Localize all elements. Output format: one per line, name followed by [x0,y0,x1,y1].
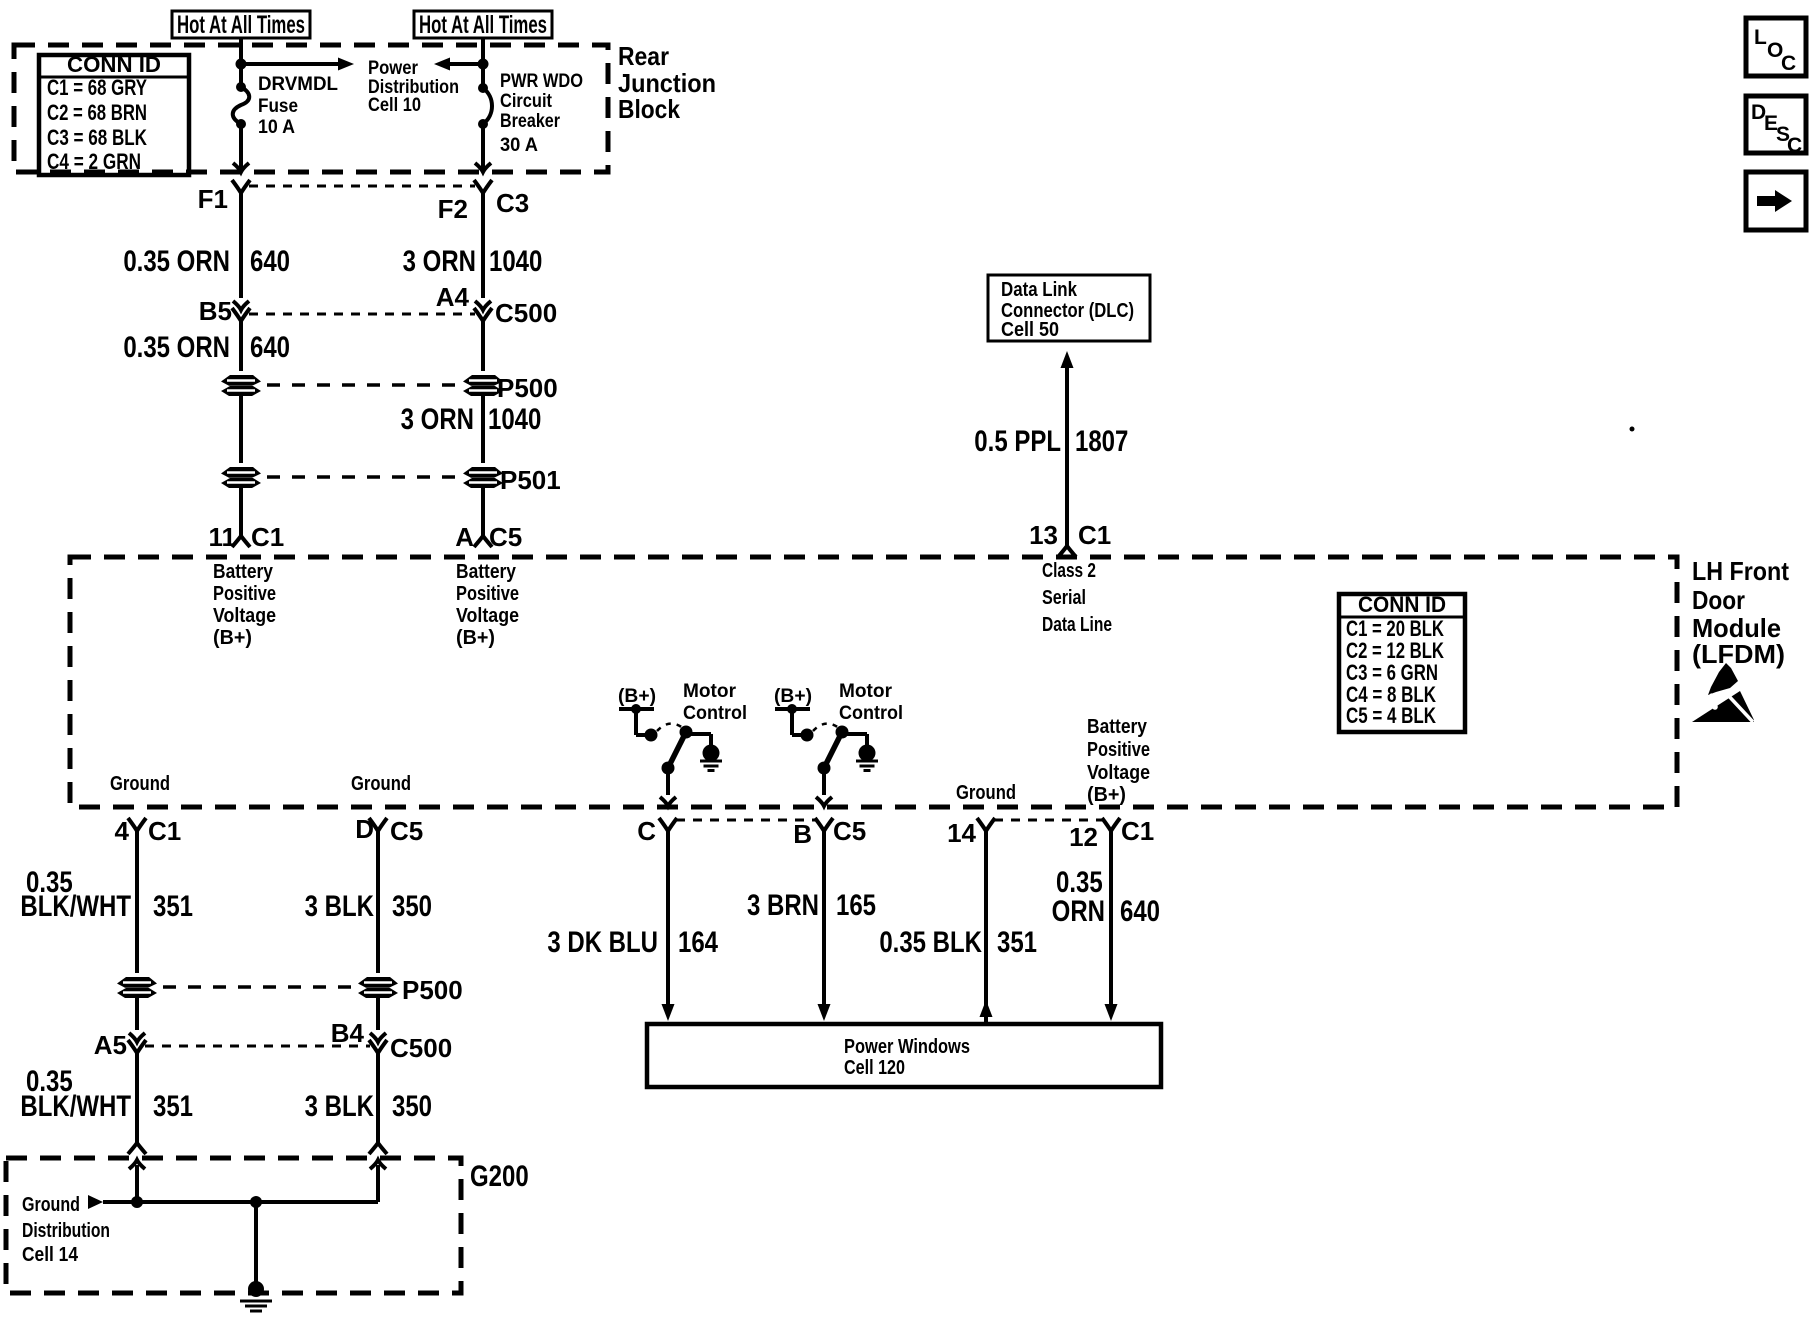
junction node on breaker feed [478,59,489,70]
svg-text:4: 4 [115,816,130,846]
svg-text:A: A [455,522,474,552]
svg-text:ORN: ORN [1052,893,1105,927]
connector line 14-12 (fine dashed) [994,819,1103,822]
svg-text:C1: C1 [1121,816,1154,846]
svg-text:Battery: Battery [213,561,274,583]
label: 0.5 PPL 1807 [974,423,1128,457]
svg-text:F2: F2 [438,194,468,224]
svg-text:(B+): (B+) [774,686,812,707]
svg-text:C1: C1 [251,522,284,552]
label: 3 DK BLU 164 [547,924,718,958]
connector line P500 lower (dashed) [163,985,352,989]
wire: 0.35 ORN 640 (P500 to P501) [239,396,243,463]
ground point G200 (earth symbol) [240,1281,272,1311]
label: 3 BRN 165 [747,887,876,921]
label: 0.35 BLK/WHT 351 (lower) [20,1063,193,1122]
svg-text:640: 640 [1120,893,1160,927]
svg-text:C1 = 68 GRY: C1 = 68 GRY [47,75,147,100]
connector line C-B (fine dashed) [676,819,816,822]
svg-text:3 ORN: 3 ORN [403,243,476,277]
motor control switch (right): Motor Control label [839,681,903,724]
motor control switch (left): blade and pole [660,732,686,806]
ground bus wire in G200 [103,1165,378,1202]
svg-text:P501: P501 [500,465,561,495]
label: 3 ORN 1040 (upper right) [403,243,543,277]
svg-text:Voltage: Voltage [456,605,519,627]
svg-text:Motor: Motor [839,681,893,702]
svg-text:11: 11 [209,522,237,552]
svg-text:LH Front: LH Front [1692,556,1789,586]
motor control switch (right): throw arc (dashed) [813,724,839,731]
svg-text:Positive: Positive [1087,739,1150,761]
svg-text:Data Line: Data Line [1042,614,1112,636]
motor control switch (left): ground contact [680,726,723,771]
svg-text:C3: C3 [496,188,529,218]
motor control switch (left): Motor Control label [683,681,747,724]
svg-text:(B+): (B+) [1087,784,1126,806]
svg-text:CONN ID: CONN ID [1358,592,1446,617]
splice node at pin-4 wire [131,1196,143,1208]
label: LH Front Door Module (LFDM) [1692,556,1789,669]
svg-text:BLK/WHT: BLK/WHT [20,888,131,922]
label: 0.35 BLK 351 [879,924,1037,958]
wire: into LFDM pin 11 [232,488,250,547]
label: pin 11 / C1 [209,522,285,552]
ground splice entry at pin-D wire (up arrow into G200) [370,1160,386,1202]
label: P500 (lower) [402,975,463,1005]
wire: fuse output with open arrowhead at block edge [233,124,249,172]
wire: 0.35 BLK/WHT 351 (pin 4 to P500) [135,831,139,973]
svg-text:Positive: Positive [456,583,519,605]
svg-text:0.5 PPL: 0.5 PPL [974,423,1061,457]
svg-text:(B+): (B+) [456,627,495,649]
LH Front Door Module enclosure (dashed) [70,557,1677,807]
svg-text:C1: C1 [1078,520,1111,550]
svg-text:L: L [1754,26,1767,49]
svg-text:Cell 14: Cell 14 [22,1244,79,1266]
label: 3 BLK 350 (lower) [305,1088,432,1122]
svg-text:P500: P500 [402,975,463,1005]
svg-text:(B+): (B+) [213,627,252,649]
label: 0.35 ORN 640 (upper left) [123,243,290,277]
motor control switch (right): (B+) label [774,686,812,707]
motor control switch (right): blade and pole [816,732,842,806]
svg-text:B5: B5 [199,296,232,326]
connector line F1-F2 (fine dashed) [249,185,475,188]
wire: 3 ORN 1040 (P500 to P501) [481,396,485,463]
in-line connector P500 lower-right half [358,977,398,998]
svg-text:Ground: Ground [110,773,170,795]
svg-text:351: 351 [153,888,193,922]
callout box: Power Windows Cell 120 [647,1024,1161,1087]
nav icon: DESC [1746,96,1806,157]
label: pin A / C5 [455,522,522,552]
label: Class 2 Serial Data Line [1042,560,1112,636]
svg-text:Cell 50: Cell 50 [1001,319,1059,341]
label: Ground (pin D) [351,773,411,795]
svg-text:Ground: Ground [22,1194,80,1216]
wire: breaker output with open arrowhead at block edge [475,124,491,172]
ESD sensitivity symbol [1692,663,1754,722]
svg-text:3 BRN: 3 BRN [747,887,819,921]
wire: 3 BLK 350 (pin D to P500) [376,831,380,973]
label: 0.35 ORN 640 (second row) [123,329,290,363]
svg-text:C5: C5 [489,522,522,552]
pin F2 / C3 receptacle [438,180,530,224]
in-line connector P500 right half [463,375,503,396]
svg-text:C1: C1 [148,816,181,846]
svg-text:Block: Block [618,94,680,124]
svg-text:640: 640 [250,329,290,363]
svg-text:0.35 BLK: 0.35 BLK [879,924,982,958]
label: 3 BLK 350 (upper) [305,888,432,922]
svg-text:C4 = 2 GRN: C4 = 2 GRN [47,149,141,174]
svg-text:Serial: Serial [1042,587,1086,609]
in-line connector P501 left half [221,467,261,488]
label: Battery Positive Voltage (B+) at pin 12 [1087,716,1150,806]
connector line A5-B4 (fine dashed) [145,1045,370,1048]
label: Power Distribution Cell 10 [368,58,459,116]
wire: 3 BRN 165 (pin B to Power Windows) [818,831,831,1021]
svg-text:350: 350 [392,888,432,922]
in-line connector P500 lower-left half [117,977,157,998]
wire: 3 BLK 350 (B4 to G200) [369,1053,387,1154]
wire: 0.35 ORN 640 (B5 to P500) [239,321,243,371]
svg-text:G200: G200 [470,1158,529,1192]
label: Rear Junction Block [618,41,716,124]
svg-text:C: C [637,816,656,846]
circuit breaker PWR WDO 30 A (arc symbol) [478,83,492,129]
svg-text:C500: C500 [390,1033,452,1063]
wire: pin4 side P500 to A5 [129,998,145,1042]
pin B4 / C500 receptacle [331,1018,452,1063]
svg-text:351: 351 [997,924,1037,958]
svg-text:0.35 ORN: 0.35 ORN [123,243,230,277]
label: Ground Distribution Cell 14 [22,1194,110,1266]
connector line P501 (dashed) [267,475,457,479]
label: 0.35 ORN 640 (lower) [1052,864,1160,927]
svg-text:Class 2: Class 2 [1042,560,1096,582]
pin 14 receptacle [947,818,995,848]
wire: drop to G200 earth point [254,1202,258,1282]
svg-text:B: B [793,819,812,849]
motor control switch (left): throw arc (dashed) [657,724,683,731]
Rear Junction Block enclosure (dashed) [14,45,608,172]
arrow: breaker feed to Power Distribution (left-pointing) [434,58,483,71]
pin B5 receptacle [199,296,250,326]
label: P501 [500,465,561,495]
svg-text:Fuse: Fuse [258,96,298,117]
svg-text:P500: P500 [497,373,558,403]
svg-text:14: 14 [947,818,976,848]
G200 enclosure (dashed) [6,1158,461,1293]
svg-text:13: 13 [1029,520,1058,550]
wire: 0.35 BLK/WHT 351 (A5 to G200) [128,1053,146,1154]
svg-text:Power: Power [368,58,419,79]
svg-text:C500: C500 [495,298,557,328]
ground splice entry at pin-4 wire (up arrow into G200) [129,1160,145,1202]
motor control switch (left): B+ rail [619,704,658,742]
svg-text:CONN ID: CONN ID [67,52,161,77]
svg-text:Ground: Ground [351,773,411,795]
svg-text:Control: Control [839,703,903,724]
svg-text:Cell 120: Cell 120 [844,1057,905,1079]
svg-text:PWR WDO: PWR WDO [500,71,583,92]
svg-text:C: C [1787,134,1802,157]
CONN ID table (LFDM) [1339,592,1465,732]
nav icon: next arrow [1746,172,1806,230]
svg-text:Rear: Rear [618,41,669,71]
svg-text:351: 351 [153,1088,193,1122]
wire: 3 ORN 1040 (F2 to C500) [475,193,491,310]
callout box: Data Link Connector (DLC) Cell 50 [988,275,1150,341]
pin C receptacle [637,816,677,846]
connector line P500 (dashed) [267,383,457,387]
svg-text:12: 12 [1069,822,1098,852]
svg-text:F1: F1 [198,184,228,214]
label: Ground (pin 4) [110,773,170,795]
svg-text:C5: C5 [833,816,866,846]
wire: 0.35 ORN 640 (pin 12 to Power Windows) [1105,831,1118,1021]
wire: right battery feed into junction block [481,38,485,87]
svg-text:1807: 1807 [1075,423,1128,457]
junction node on fuse feed [236,59,247,70]
svg-text:(B+): (B+) [618,686,656,707]
wire: 3 DK BLU 164 (pin C to Power Windows) [662,831,675,1021]
svg-text:C5 = 4 BLK: C5 = 4 BLK [1346,703,1436,728]
motor control switch (left): (B+) label [618,686,656,707]
motor control switch (right): B+ rail [775,704,814,742]
pin 4 / C1 receptacle [115,816,182,846]
splice node at ground drop [250,1196,262,1208]
wire: left battery feed into junction block [239,38,243,86]
svg-text:Ground: Ground [956,782,1016,804]
svg-text:Cell 10: Cell 10 [368,95,421,116]
wire: 0.35 ORN 640 (F1 to B5) [233,193,249,310]
svg-text:3 BLK: 3 BLK [305,888,375,922]
svg-text:C: C [1781,52,1796,75]
svg-text:1040: 1040 [489,243,542,277]
svg-text:A5: A5 [94,1030,127,1060]
svg-text:C5: C5 [390,816,423,846]
label: 3 ORN 1040 (between P500 and P501) [401,401,542,435]
wire: 3 ORN 1040 (C500 to P500) [481,321,485,371]
svg-text:D: D [355,814,374,844]
svg-text:640: 640 [250,243,290,277]
svg-text:A4: A4 [436,282,470,312]
label: Ground (pin 14) [956,782,1016,804]
svg-text:C3 = 68 BLK: C3 = 68 BLK [47,125,147,150]
svg-text:Positive: Positive [213,583,276,605]
power tag box "Hot At All Times" (right) [414,11,552,38]
svg-text:DRVMDL: DRVMDL [258,74,338,95]
svg-text:0.35 ORN: 0.35 ORN [123,329,230,363]
label: DRVMDL Fuse 10 A [258,74,338,138]
svg-text:3 ORN: 3 ORN [401,401,474,435]
svg-text:Power Windows: Power Windows [844,1036,970,1058]
svg-text:Distribution: Distribution [22,1220,110,1242]
pin D / C5 receptacle [355,814,423,846]
wire: pinD side P500 to B4 [370,998,386,1042]
svg-text:164: 164 [678,924,718,958]
svg-text:Battery: Battery [1087,716,1148,738]
label: 0.35 BLK/WHT 351 (upper) [20,864,193,922]
wire: into LFDM pin A [474,488,492,547]
label: G200 [470,1158,529,1192]
svg-text:10 A: 10 A [258,117,295,138]
connector line B5-A4 (fine dashed) [249,313,475,316]
svg-text:165: 165 [836,887,876,921]
nav icon: LOC [1746,18,1806,76]
svg-text:Hot At All Times: Hot At All Times [177,11,305,38]
svg-text:3 DK BLU: 3 DK BLU [547,924,658,958]
pin F1 receptacle [198,180,250,214]
svg-text:(LFDM): (LFDM) [1692,639,1785,669]
pin 12 / C1 receptacle [1069,816,1154,852]
svg-text:Control: Control [683,703,747,724]
svg-text:Voltage: Voltage [213,605,276,627]
svg-text:Voltage: Voltage [1087,762,1150,784]
pin A4 / C500 receptacle [436,282,557,328]
svg-text:Door: Door [1692,585,1745,615]
in-line connector P500 left half [221,375,261,396]
motor control switch (right): ground contact [836,726,879,771]
svg-text:Circuit: Circuit [500,91,553,112]
label: P500 (top) [497,373,558,403]
pin B / C5 receptacle [793,816,866,849]
svg-text:350: 350 [392,1088,432,1122]
svg-text:B4: B4 [331,1018,365,1048]
in-line connector P501 right half [463,467,503,488]
label: Battery Positive Voltage (B+) at pin 11 [213,561,276,649]
svg-text:Motor: Motor [683,681,737,702]
label: pin 13 / C1 [1029,520,1111,550]
arrow: feed to Power Distribution (right-pointing) [241,58,354,71]
svg-text:3 BLK: 3 BLK [305,1088,375,1122]
svg-text:Breaker: Breaker [500,111,561,132]
svg-text:Data Link: Data Link [1001,279,1078,301]
svg-text:30 A: 30 A [500,135,538,156]
label: PWR WDO Circuit Breaker 30 A [500,71,583,156]
svg-text:C2 = 68 BRN: C2 = 68 BRN [47,100,147,125]
CONN ID table (Rear Junction Block) [39,52,189,175]
fuse DRVMDL 10 A (S-curve symbol) [233,82,250,129]
svg-text:1040: 1040 [488,401,541,435]
label: Battery Positive Voltage (B+) at pin A [456,561,519,649]
power tag box "Hot At All Times" (left) [172,11,310,38]
wire: 0.35 BLK 351 (Power Windows to pin 14, up arrow) [980,831,993,1024]
svg-text:Battery: Battery [456,561,517,583]
speck (scan artifact) [1630,427,1635,432]
wire: 0.5 PPL 1807 class-2 data line with up arrow [1058,351,1076,557]
pin A5 receptacle [94,1030,146,1060]
svg-text:BLK/WHT: BLK/WHT [20,1088,131,1122]
svg-text:Hot At All Times: Hot At All Times [419,11,547,38]
arrow: ground distribution feed [88,1195,103,1209]
